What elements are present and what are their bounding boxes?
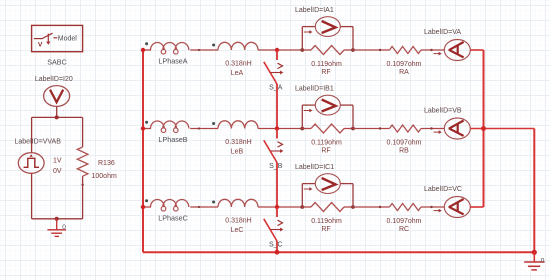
svg-text:0.318nH: 0.318nH bbox=[225, 139, 251, 146]
polarity mark bbox=[145, 42, 148, 45]
svg-text:0: 0 bbox=[541, 258, 545, 265]
phase B wire bbox=[143, 128, 151, 130]
svg-text:0.1097ohm: 0.1097ohm bbox=[386, 61, 421, 68]
svg-text:0.119ohm: 0.119ohm bbox=[311, 218, 342, 225]
node junction bbox=[300, 127, 304, 131]
svg-text:S_A: S_A bbox=[269, 84, 283, 91]
node junction bbox=[351, 48, 355, 52]
wire bbox=[190, 206, 218, 208]
ammeter IC1 bbox=[315, 174, 340, 194]
wire bbox=[258, 206, 302, 208]
ammeter VA bbox=[444, 40, 470, 61]
node junction bbox=[55, 115, 59, 119]
inductor LeB bbox=[218, 121, 258, 129]
wire VA to bus bbox=[470, 49, 483, 51]
wire far right down bbox=[533, 129, 535, 253]
phase C wire bbox=[143, 206, 151, 208]
resistor R136 bbox=[77, 147, 88, 176]
right bus wire bbox=[483, 50, 485, 207]
wire bbox=[353, 128, 390, 130]
wire bbox=[276, 241, 278, 252]
switch S_B bbox=[276, 129, 278, 139]
node junction bbox=[351, 127, 355, 131]
ammeter VB bbox=[444, 118, 470, 139]
node junction bbox=[300, 48, 304, 52]
inductor LeC bbox=[218, 199, 258, 207]
svg-text:0V: 0V bbox=[53, 168, 62, 175]
node junction ground right bbox=[532, 250, 537, 255]
svg-text:LabelID=IB1: LabelID=IB1 bbox=[295, 85, 334, 92]
polarity mark bbox=[212, 44, 215, 47]
voltmeter I20 bbox=[44, 86, 70, 107]
polarity mark bbox=[212, 201, 215, 204]
svg-text:R136: R136 bbox=[98, 160, 115, 167]
resistor RB bbox=[390, 125, 422, 132]
wire top loop bbox=[32, 116, 83, 118]
wire VC to bus bbox=[470, 206, 483, 208]
svg-text:1V: 1V bbox=[53, 158, 62, 165]
svg-text:RF: RF bbox=[321, 69, 330, 76]
wire bbox=[421, 49, 444, 51]
inductor LeA bbox=[218, 42, 258, 50]
svg-text:RC: RC bbox=[399, 226, 409, 233]
svg-text:100ohm: 100ohm bbox=[92, 173, 117, 180]
left bus wire bbox=[142, 49, 144, 252]
svg-text:0.1097ohm: 0.1097ohm bbox=[386, 218, 421, 225]
ground 0 right bbox=[533, 252, 535, 262]
wire bbox=[276, 163, 278, 208]
svg-text:0.318nH: 0.318nH bbox=[225, 61, 251, 68]
svg-text:LPhaseA: LPhaseA bbox=[158, 57, 187, 66]
wire bbox=[31, 173, 33, 219]
inductor LPhaseA bbox=[151, 43, 189, 50]
node junction S_C bottom bbox=[275, 250, 280, 255]
phase A wire bbox=[143, 49, 151, 51]
svg-text:0.119ohm: 0.119ohm bbox=[311, 61, 342, 68]
svg-text:LabelID=IA1: LabelID=IA1 bbox=[295, 7, 334, 14]
wire VB to far right bbox=[470, 128, 534, 130]
svg-text:RF: RF bbox=[321, 148, 330, 155]
svg-text:LabelID=VVAB: LabelID=VVAB bbox=[15, 139, 62, 146]
wire bbox=[353, 206, 390, 208]
wire bbox=[276, 84, 278, 129]
node junction bbox=[275, 48, 279, 52]
node junction bbox=[275, 205, 279, 209]
wire bbox=[258, 49, 302, 51]
resistor RF phase C bbox=[302, 206, 311, 208]
polarity mark bbox=[145, 121, 148, 124]
wire right branch bbox=[82, 117, 84, 147]
svg-text:S_B: S_B bbox=[269, 163, 283, 170]
wire parallel loop bbox=[301, 27, 303, 50]
svg-text:RF: RF bbox=[321, 226, 330, 233]
wire parallel loop bbox=[301, 105, 303, 128]
inductor LPhaseB bbox=[151, 121, 189, 128]
wire bottom loop bbox=[32, 218, 83, 220]
svg-text:RB: RB bbox=[399, 148, 409, 155]
wire bbox=[190, 128, 218, 130]
svg-text:0.318nH: 0.318nH bbox=[225, 218, 251, 225]
node junctions left bus bbox=[141, 48, 145, 52]
svg-text:LabelID=I20: LabelID=I20 bbox=[35, 76, 73, 83]
wire bbox=[190, 49, 218, 51]
svg-text:LeA: LeA bbox=[231, 70, 244, 77]
resistor RF phase A bbox=[302, 49, 311, 51]
svg-text:0.119ohm: 0.119ohm bbox=[311, 139, 342, 146]
wire bbox=[258, 128, 302, 130]
svg-text:LabelID=VB: LabelID=VB bbox=[424, 107, 462, 114]
node junction bbox=[481, 126, 486, 131]
model block SABC bbox=[32, 25, 83, 51]
wire bbox=[31, 117, 33, 152]
inductor LPhaseC bbox=[151, 200, 189, 207]
polarity mark bbox=[212, 122, 215, 125]
resistor RA bbox=[390, 47, 422, 54]
svg-text:0.1097ohm: 0.1097ohm bbox=[386, 139, 421, 146]
svg-text:0: 0 bbox=[62, 224, 66, 231]
ammeter IB1 bbox=[315, 95, 340, 115]
svg-text:LPhaseC: LPhaseC bbox=[158, 214, 188, 223]
node junction bbox=[351, 205, 355, 209]
node junction bbox=[275, 126, 279, 130]
svg-text:LPhaseB: LPhaseB bbox=[158, 135, 187, 144]
svg-text:S_C: S_C bbox=[269, 241, 283, 248]
svg-text:SABC: SABC bbox=[47, 57, 67, 66]
svg-text:LabelID=VA: LabelID=VA bbox=[424, 29, 461, 36]
wire bbox=[421, 128, 444, 130]
source VVAB bbox=[18, 153, 44, 174]
node junction bbox=[300, 205, 304, 209]
wire parallel loop bbox=[301, 184, 303, 207]
resistor RF phase B bbox=[302, 128, 311, 130]
bottom bus wire bbox=[143, 251, 534, 253]
wire bbox=[56, 106, 58, 117]
ammeter IA1 bbox=[315, 17, 340, 37]
resistor RC bbox=[390, 204, 422, 211]
svg-text:LeC: LeC bbox=[231, 227, 244, 234]
svg-text:Model: Model bbox=[58, 36, 78, 43]
svg-text:LabelID=VC: LabelID=VC bbox=[424, 186, 462, 193]
switch S_C bbox=[276, 207, 278, 217]
svg-text:V: V bbox=[38, 42, 43, 49]
ammeter VC bbox=[444, 197, 470, 218]
wire bbox=[421, 206, 444, 208]
ground 0 left bbox=[56, 219, 58, 230]
svg-text:LeB: LeB bbox=[231, 148, 244, 155]
wire bbox=[353, 49, 390, 51]
wire bbox=[82, 176, 84, 219]
svg-text:LabelID=IC1: LabelID=IC1 bbox=[295, 164, 334, 171]
polarity mark bbox=[145, 199, 148, 202]
switch S_A bbox=[276, 50, 278, 60]
svg-text:RA: RA bbox=[399, 69, 409, 76]
